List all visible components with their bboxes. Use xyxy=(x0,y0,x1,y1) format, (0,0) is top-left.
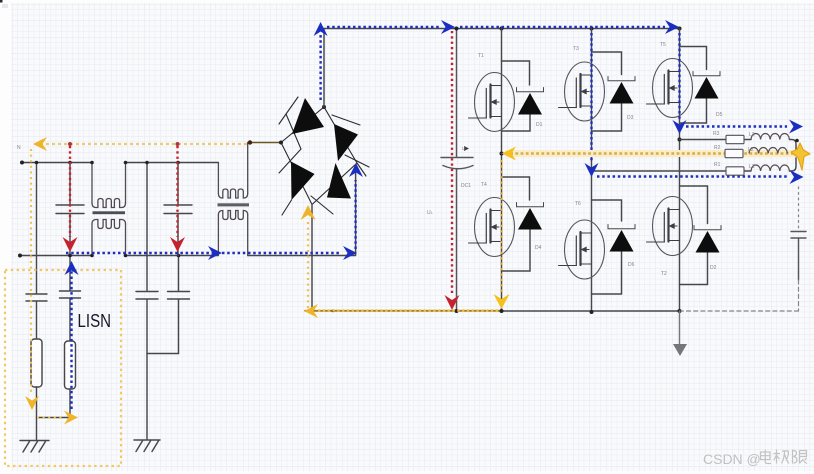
node leg1 rail bottom xyxy=(500,309,504,313)
watermark glyph dian xyxy=(761,450,772,464)
node small rail mark xyxy=(332,309,335,312)
capacitor X-cap CX1 xyxy=(56,161,84,258)
node phase A xyxy=(500,152,504,156)
capacitor Y-cap CY2 bottom xyxy=(168,254,190,354)
svg-text:L2: L2 xyxy=(748,147,754,153)
corner UI fragment xyxy=(0,0,3,3)
svg-text:T4: T4 xyxy=(481,182,487,188)
svg-text:DC1: DC1 xyxy=(461,183,471,189)
ground Y-cap xyxy=(134,440,160,452)
svg-text:R2: R2 xyxy=(714,145,721,151)
wire phase A to load xyxy=(502,153,798,155)
wire blue path phase B to load xyxy=(597,175,787,177)
star measurement point marker xyxy=(791,143,810,170)
wire yellow CM path horizontal annotation xyxy=(40,143,248,145)
svg-text:T6: T6 xyxy=(575,201,581,207)
wire branch A to ground xyxy=(36,387,38,440)
wire yellow path LISN bottom link xyxy=(37,416,62,418)
wire Y-cap junction to ground xyxy=(147,354,179,440)
svg-text:D2: D2 xyxy=(710,265,717,271)
svg-text:N: N xyxy=(17,145,21,151)
inductor L1 phase B xyxy=(751,165,789,171)
diode D5 xyxy=(680,47,721,124)
arrow blue up at rail corner xyxy=(314,22,328,36)
wire yellow path along DC- rail xyxy=(318,309,500,311)
arrow blue right end phase C xyxy=(789,120,803,134)
node choke2-bridge junction xyxy=(248,140,252,144)
diode D2 xyxy=(680,186,722,285)
svg-text:D4: D4 xyxy=(535,245,542,251)
transistor T5 xyxy=(647,59,693,118)
arrow red down at X-cap1 xyxy=(63,237,78,252)
resistor R1 phase B xyxy=(726,167,744,175)
node input L terminal xyxy=(20,161,24,165)
diode D4 xyxy=(502,177,544,271)
wire inverter leg 1 xyxy=(501,29,503,312)
arrow blue right on rail 2 xyxy=(665,20,679,34)
wire blue path along bottom AC wire xyxy=(66,252,340,254)
wire star point parasitic path dotted xyxy=(798,187,800,229)
arrow yellow up at bridge bottom xyxy=(301,205,316,220)
node rail leg2 xyxy=(590,27,594,31)
ground arrow at leg3 xyxy=(673,311,687,356)
transformer common-mode choke CM2 xyxy=(218,143,250,256)
svg-text:T5: T5 xyxy=(660,42,666,48)
arrow yellow right in LISN xyxy=(64,411,78,425)
svg-text:D5: D5 xyxy=(716,112,723,118)
watermark CSDN xyxy=(703,451,761,467)
wire inverter leg 3 xyxy=(679,29,681,312)
wire DC- bottom rail left olive part xyxy=(305,310,502,312)
wire blue path up bridge top xyxy=(319,33,321,100)
node leg3 rail bottom xyxy=(678,309,682,313)
inductor L3 phase C xyxy=(751,134,789,140)
ground LISN xyxy=(20,441,49,453)
wire blue path up LISN branch B xyxy=(70,264,72,409)
node rail leg1 xyxy=(500,27,504,31)
label u near DC link xyxy=(462,146,465,152)
transistor T1 xyxy=(469,73,515,132)
svg-text:u: u xyxy=(462,146,465,152)
arrow blue right on rail 1 xyxy=(441,20,455,34)
arrow red down at DC link bottom xyxy=(445,295,460,310)
label input terminal N xyxy=(17,145,21,151)
arrow blue right end phase B xyxy=(790,170,804,184)
arrow blue down at phase C xyxy=(673,120,687,134)
node phase B xyxy=(590,169,594,173)
diode D6 xyxy=(592,200,636,294)
capacitor Y-cap CY1 top xyxy=(136,161,158,354)
transistor T4 xyxy=(469,198,515,257)
wire orange phase A highlighted path xyxy=(505,150,796,157)
capacitor X-cap CX2 xyxy=(164,161,192,256)
svg-text:CSDN @: CSDN @ xyxy=(703,451,761,467)
node DC1 top xyxy=(455,27,459,31)
wire bridge top to DC+ rail xyxy=(323,29,325,108)
watermark glyph xian xyxy=(793,450,808,464)
arrow red down at X-cap2 xyxy=(170,237,185,252)
LISN branch A capacitor C-A xyxy=(26,161,47,339)
capacitor parasitic Cg xyxy=(791,232,806,281)
wire choke2 to bridge left vertex xyxy=(248,142,281,144)
node yellow path junction R2 xyxy=(176,142,180,146)
node load star point xyxy=(795,139,799,143)
wire red DM path down X-cap2 xyxy=(176,146,178,237)
svg-text:L1: L1 xyxy=(749,164,755,170)
arrow yellow left at input xyxy=(33,137,47,151)
diode D1 xyxy=(502,61,544,131)
wire bridge bottom to DC- rail xyxy=(311,205,313,311)
wire blue path down leg2 xyxy=(590,33,592,162)
wire phase B to load xyxy=(592,158,797,171)
wire blue path down leg3 xyxy=(678,33,680,119)
node leg2 rail bottom xyxy=(590,310,594,314)
diode D3 xyxy=(592,52,636,131)
label LISN xyxy=(78,311,112,331)
resistor R3 phase C xyxy=(726,135,744,143)
transistor T2 xyxy=(647,197,693,256)
svg-text:T1: T1 xyxy=(478,53,484,59)
wire blue path along DC+ rail left xyxy=(327,26,441,28)
arrow orange left at phase A xyxy=(502,147,516,161)
capacitor DC link DC1 xyxy=(441,29,473,312)
svg-text:T3: T3 xyxy=(573,46,579,52)
arrow yellow left on DC- rail xyxy=(304,304,318,318)
wire top AC line L xyxy=(22,162,218,164)
arrow yellow down in LISN xyxy=(25,396,39,410)
svg-text:R1: R1 xyxy=(714,162,721,168)
wire DC+ top rail xyxy=(324,28,680,30)
wire phase C to load xyxy=(680,140,797,151)
wire inverter leg 2 xyxy=(591,29,593,313)
wire blue path along DC+ rail right xyxy=(460,26,665,28)
svg-text:D1: D1 xyxy=(536,122,543,128)
node phase C xyxy=(678,138,682,142)
wire blue path phase C to load xyxy=(686,125,787,127)
node bridge top vertex xyxy=(322,105,326,109)
arrow blue right at bridge xyxy=(343,246,357,260)
diode bridge rectifier B1 xyxy=(279,97,369,215)
watermark glyph ji xyxy=(774,450,790,464)
wire blue path up to bridge right vertex xyxy=(354,180,356,249)
arrow blue down at phase B xyxy=(585,163,599,177)
node input N terminal xyxy=(18,254,22,258)
transformer common-mode choke CM1 xyxy=(90,161,127,258)
resistor R2 phase A xyxy=(725,149,743,157)
arrow blue up at branch B xyxy=(65,261,79,275)
LISN branch B resistor R-B xyxy=(65,341,76,389)
wire DC- bottom rail right part xyxy=(502,310,681,312)
svg-text:R3: R3 xyxy=(713,131,720,137)
wire yellow path down into LISN xyxy=(30,149,32,394)
LISN dotted enclosure box xyxy=(5,270,121,466)
wire bottom AC line N xyxy=(20,168,356,256)
wire branch B bottom link xyxy=(37,389,71,418)
wire red DM path down X-cap1 xyxy=(69,146,71,237)
arrow blue up at bridge right vertex xyxy=(349,163,363,177)
svg-text:LISN: LISN xyxy=(78,311,112,331)
node bridge left vertex xyxy=(279,141,283,145)
LISN branch B capacitor C-B xyxy=(60,254,81,341)
svg-text:D6: D6 xyxy=(628,262,635,268)
node DC1 bottom xyxy=(455,309,459,313)
wire red path down DC link xyxy=(451,31,453,295)
svg-text:L3: L3 xyxy=(749,132,755,138)
svg-text:D3: D3 xyxy=(627,115,634,121)
LISN branch A resistor R-A xyxy=(31,339,42,387)
arrow blue right mid xyxy=(208,246,222,260)
wire yellow path up to bridge bottom xyxy=(307,221,309,308)
inductor L2 phase A xyxy=(749,148,787,154)
node rail leg3 end xyxy=(678,27,682,31)
wire parasitic return dashed xyxy=(681,280,799,311)
arrow orange down at leg1 bottom xyxy=(494,294,510,309)
wire orange path down leg1 xyxy=(500,160,502,292)
svg-text:T2: T2 xyxy=(661,271,667,277)
transistor T3 xyxy=(559,62,605,121)
transistor T6 xyxy=(559,220,605,279)
node yellow path junction R1 xyxy=(68,142,72,146)
